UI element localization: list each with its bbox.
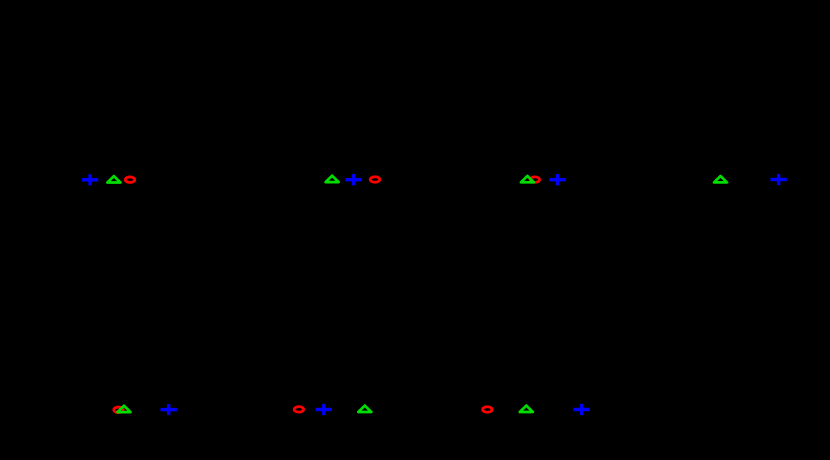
top row, group 3: blue plus marker xyxy=(549,174,565,185)
top row, group 1: blue plus marker xyxy=(82,174,98,185)
top row, group 4: blue plus marker xyxy=(770,174,786,185)
bottom row, group 2: blue plus marker xyxy=(316,404,332,415)
bottom row, group 1: blue plus marker xyxy=(161,404,177,415)
top row, group 2: green triangle marker xyxy=(326,176,339,182)
top row, group 4: green triangle marker xyxy=(714,176,727,182)
bottom row, group 1: red circle marker (under triangle) xyxy=(114,407,123,413)
bottom row, group 3: blue plus marker xyxy=(573,404,589,415)
top row, group 1: red circle marker xyxy=(125,177,134,183)
bottom row, group 2: red circle marker xyxy=(294,407,303,413)
top row, group 1: green triangle marker xyxy=(107,176,120,182)
bottom row, group 3: green triangle marker xyxy=(520,406,533,412)
top row, group 2: red circle marker xyxy=(370,177,379,183)
top row, group 3: green triangle marker xyxy=(521,176,534,182)
bottom row, group 3: red circle marker xyxy=(483,407,492,413)
bottom row, group 1: green triangle marker xyxy=(118,406,131,412)
top row, group 2: blue plus marker xyxy=(345,174,361,185)
bottom row, group 2: green triangle marker xyxy=(358,406,371,412)
top row, group 3: red circle marker (under triangle) xyxy=(530,177,539,183)
